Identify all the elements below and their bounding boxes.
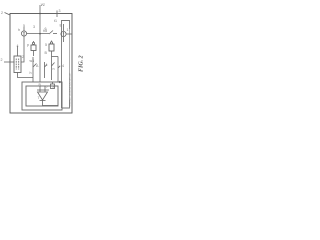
svg-text:3: 3 xyxy=(33,25,35,29)
svg-text:7: 7 xyxy=(46,85,48,89)
svg-text:w3: w3 xyxy=(30,59,35,63)
svg-text:V1: V1 xyxy=(41,3,45,7)
svg-text:t1: t1 xyxy=(54,19,57,23)
svg-text:3: 3 xyxy=(59,9,61,13)
svg-text:h: h xyxy=(18,28,20,32)
svg-text:hd: hd xyxy=(43,29,47,33)
svg-text:h: h xyxy=(30,71,32,75)
svg-text:4: 4 xyxy=(46,63,48,67)
svg-text:4: 4 xyxy=(17,44,19,48)
svg-text:FIG. 2: FIG. 2 xyxy=(78,55,84,72)
svg-text:p: p xyxy=(27,43,29,47)
svg-text:8: 8 xyxy=(60,24,62,28)
svg-text:2: 2 xyxy=(22,55,24,59)
svg-text:2: 2 xyxy=(1,11,3,15)
svg-text:5: 5 xyxy=(45,43,47,47)
svg-text:9: 9 xyxy=(53,86,55,90)
svg-text:n: n xyxy=(53,67,55,71)
svg-text:TRIGGER GENERATION CIRCUIT: TRIGGER GENERATION CIRCUIT xyxy=(69,72,72,107)
svg-text:1: 1 xyxy=(67,28,69,32)
svg-text:2: 2 xyxy=(1,58,3,62)
svg-text:7: 7 xyxy=(38,96,40,100)
svg-text:5: 5 xyxy=(23,24,25,28)
svg-text:4: 4 xyxy=(62,64,64,68)
